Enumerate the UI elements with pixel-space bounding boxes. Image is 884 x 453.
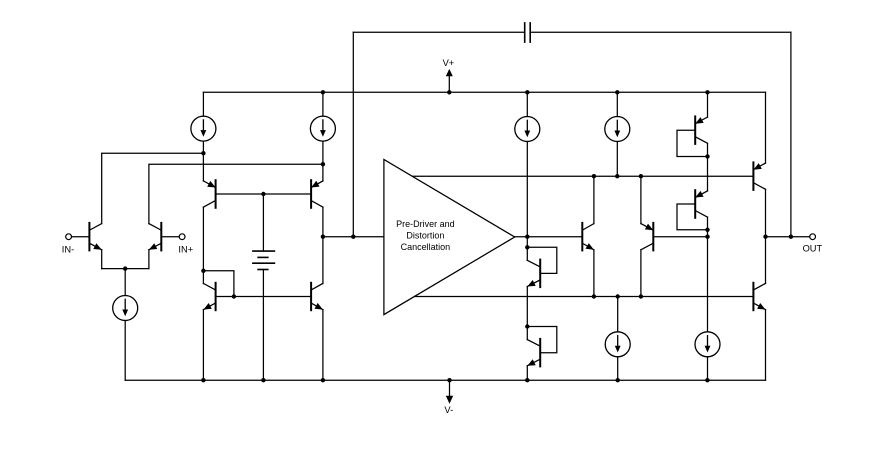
svg-text:Cancellation: Cancellation xyxy=(401,242,451,252)
svg-text:IN+: IN+ xyxy=(178,244,193,254)
svg-text:V-: V- xyxy=(444,405,453,415)
svg-text:Pre-Driver and: Pre-Driver and xyxy=(396,219,455,229)
svg-text:Distortion: Distortion xyxy=(406,231,444,241)
svg-text:V+: V+ xyxy=(443,58,455,68)
svg-text:IN-: IN- xyxy=(62,244,74,254)
svg-text:OUT: OUT xyxy=(803,244,823,254)
